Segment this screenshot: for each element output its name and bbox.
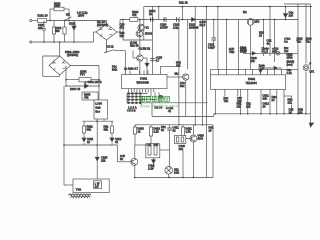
svg-text:Ja JaBx 4.7: Ja JaBx 4.7: [124, 67, 139, 71]
svg-text:10k: 10k: [120, 34, 125, 38]
svg-text:68k: 68k: [104, 128, 109, 132]
bridge right stub to main rail: [117, 20, 120, 33]
varistor D101: [63, 21, 66, 43]
resistor R102: [54, 7, 64, 11]
diode D312: [110, 138, 114, 142]
svg-text:10: 10: [209, 129, 212, 133]
svg-text:33: 33: [173, 129, 176, 133]
bridge rectifier D301-D304: [49, 56, 70, 75]
amp top wire: [135, 124, 213, 126]
speaker BL: [165, 167, 173, 178]
R82 wire: [284, 96, 292, 114]
long left vertical wire: [64, 86, 73, 185]
svg-text:3mb: 3mb: [95, 106, 101, 110]
IC301 pin wire to right: [161, 66, 179, 70]
diode D803: [283, 7, 287, 20]
svg-text:250V: 250V: [78, 14, 84, 18]
transistor V301: [133, 20, 143, 75]
right bus vertical: [310, 7, 312, 114]
capacitor C210 on rail: [177, 17, 180, 21]
wire above IC801: [211, 68, 299, 70]
transistor V410: [183, 125, 197, 178]
svg-text:▲ C301 M4T3: ▲ C301 M4T3: [84, 80, 102, 84]
svg-text:R41: R41: [154, 142, 159, 146]
svg-text:TEA1064: TEA1064: [246, 81, 258, 85]
IC301 bottom pins: [129, 89, 154, 93]
svg-text:22k: 22k: [101, 159, 106, 163]
bridge top stub: [106, 21, 108, 25]
svg-text:223: 223: [38, 26, 43, 30]
svg-text:IC801: IC801: [248, 77, 256, 81]
resistor R311: [83, 126, 86, 133]
svg-text:(1N4007): (1N4007): [67, 53, 78, 57]
resistor R103: [52, 21, 55, 43]
diode D102: [72, 21, 76, 43]
svg-text:18k: 18k: [237, 105, 242, 109]
svg-text:1xx: 1xx: [284, 49, 289, 53]
svg-text:3DG: 3DG: [198, 137, 204, 141]
svg-text:LF1: LF1: [310, 70, 315, 74]
resistor R408 box: [175, 136, 186, 144]
svg-text:(sec): (sec): [287, 63, 293, 67]
svg-text:1nF: 1nF: [260, 67, 265, 71]
terminal A (line L1): [30, 19, 38, 21]
middle verticals: [179, 7, 227, 125]
svg-text:2.2k: 2.2k: [148, 167, 154, 171]
keypad matrix: [127, 92, 208, 104]
svg-text:30: 30: [263, 105, 266, 109]
svg-text:HK: HK: [66, 13, 70, 17]
transformer coil: [69, 194, 91, 198]
transistor V102: [136, 30, 143, 37]
svg-text:220k: 220k: [54, 4, 60, 8]
svg-text:T-91: T-91: [76, 188, 82, 192]
amp bottom wire: [135, 177, 213, 179]
IC801 bottom pins: [215, 89, 284, 114]
svg-text:LC30: LC30: [95, 102, 102, 106]
capacitor C411: [167, 125, 172, 168]
svg-text:33k: 33k: [263, 97, 268, 101]
svg-text:YR5: YR5: [229, 50, 235, 54]
wire cap to transformer: [96, 160, 98, 181]
hook switch HJ: [104, 50, 126, 75]
svg-text:R21 1k: R21 1k: [179, 1, 188, 5]
wire above IC801: [243, 52, 298, 54]
right verticals: [298, 4, 311, 114]
svg-text:R101 10: R101 10: [38, 14, 49, 18]
switch HK: [64, 17, 72, 21]
svg-text:C41: C41: [147, 142, 152, 146]
svg-text:R304 43: R304 43: [70, 87, 81, 91]
svg-text:15k: 15k: [176, 64, 181, 68]
polarized cap C807: [276, 52, 280, 56]
svg-text:47k: 47k: [132, 13, 137, 17]
transistor V101: [138, 24, 145, 31]
svg-text:1N4148: 1N4148: [189, 26, 199, 30]
svg-text:2.2k: 2.2k: [154, 130, 160, 134]
tall rect verticals: [144, 7, 159, 75]
wire bottom line: [33, 41, 94, 43]
wire mid above IC801: [258, 67, 282, 69]
svg-text:FTY: FTY: [80, 73, 85, 77]
svg-text:21k: 21k: [288, 101, 293, 105]
transistor V304: [167, 74, 189, 117]
main rail: [120, 19, 298, 21]
top bus: [144, 6, 312, 8]
PTC 220R FTY: [79, 78, 91, 82]
svg-text:20: 20: [259, 34, 262, 38]
diode D315: [95, 157, 99, 161]
svg-text:MIC: MIC: [255, 20, 260, 24]
svg-text:68k: 68k: [87, 128, 92, 132]
svg-text:HJ 1k: HJ 1k: [107, 45, 115, 49]
resistor R101: [38, 19, 51, 23]
sub box R413 R414: [135, 144, 170, 158]
svg-text:Txx: Txx: [297, 40, 302, 44]
svg-text:41: 41: [168, 109, 171, 113]
svg-text:2.2µ: 2.2µ: [173, 26, 179, 30]
diode D311: [82, 138, 86, 142]
amp right vertical: [206, 125, 208, 178]
svg-text:50x: 50x: [180, 84, 185, 88]
left column parts C201 R301: [123, 20, 153, 41]
svg-text:P 1.5: P 1.5: [262, 50, 269, 54]
diode D801: [252, 52, 256, 55]
wire loop up: [50, 9, 69, 21]
svg-text:4 5 6 B: 4 5 6 B: [127, 109, 136, 113]
verticals right mid: [264, 7, 275, 63]
terminal B wire down to ring bridge: [59, 42, 61, 56]
resistor R210 above bus: [182, 7, 184, 20]
capacitor C105: [150, 59, 154, 61]
svg-text:5x-r: 5x-r: [95, 110, 100, 114]
ring bridge left stub: [43, 56, 60, 76]
diode D210 on rail: [192, 18, 196, 22]
svg-text:V1: V1: [146, 26, 150, 30]
earpiece LF: [303, 63, 311, 71]
ladder wires: [66, 66, 99, 101]
transistor Q401: [127, 145, 138, 178]
capacitor C110 on rail: [164, 17, 166, 21]
capacitor C211: [212, 20, 217, 45]
svg-text:Mx: Mx: [175, 72, 179, 76]
mic top wire: [250, 18, 252, 21]
svg-text:WD3448B: WD3448B: [137, 81, 149, 85]
diode D305: [85, 84, 89, 88]
capacitor C101: [42, 21, 46, 43]
bottom bus: [152, 114, 311, 117]
vertical x182 bottom: [182, 150, 184, 178]
amp left vertical: [134, 125, 136, 145]
terminal B (line L2): [30, 41, 33, 43]
resistor R411: [181, 125, 184, 139]
bridge rectifier D1-D4: [96, 24, 117, 40]
svg-text:D102: D102: [69, 22, 76, 26]
svg-text:10k: 10k: [250, 59, 255, 63]
IC301 dialer: [122, 75, 168, 89]
svg-text:4.7: 4.7: [156, 59, 160, 63]
resistor R416: [149, 125, 152, 144]
svg-text:472: 472: [120, 26, 125, 30]
svg-text:1.5k: 1.5k: [186, 130, 192, 134]
diode D411: [152, 158, 156, 169]
IC301 top pins: [125, 71, 160, 75]
wire top line to bridge: [50, 20, 107, 22]
svg-text:103: 103: [289, 14, 294, 18]
svg-text:47k: 47k: [84, 96, 89, 100]
svg-text:Mx: Mx: [243, 10, 247, 14]
svg-text:150k: 150k: [287, 56, 293, 60]
resistor R110 on rail: [130, 18, 138, 22]
svg-text:0.5µF: 0.5µF: [208, 46, 215, 50]
diode D803b: [274, 66, 278, 69]
microphone BM: [247, 19, 254, 70]
svg-text:68µF: 68µF: [240, 49, 247, 53]
svg-text:IC301: IC301: [140, 77, 148, 81]
diode mark on pin: [259, 70, 262, 73]
svg-text:24: 24: [272, 98, 275, 102]
right top wire: [284, 3, 311, 5]
ground: [309, 114, 313, 127]
keypad to bus wire: [142, 103, 153, 117]
capacitor C104 on rail: [151, 17, 153, 21]
svg-text:10k: 10k: [246, 105, 251, 109]
svg-text:www.elecfans.com: www.elecfans.com: [140, 104, 178, 109]
transformer T-91 box: [73, 179, 109, 193]
wires under ringer: [64, 119, 127, 162]
svg-text:2x7: 2x7: [95, 185, 100, 189]
IC801 speech: [211, 75, 286, 90]
IC801 top pins: [211, 20, 282, 75]
resistor box R305: [82, 92, 98, 100]
svg-text:M4x: M4x: [112, 68, 118, 72]
watermark line 1 (CJK drawn): [140, 96, 169, 101]
resistor R312: [111, 126, 114, 133]
svg-text:560: 560: [55, 29, 60, 33]
ringer box LC301: [94, 100, 108, 119]
svg-text:1.5x: 1.5x: [287, 71, 293, 75]
resistor R410: [133, 125, 136, 134]
bridge bottom stub to hook switch: [106, 40, 108, 52]
svg-text:16Ω: 16Ω: [174, 171, 179, 175]
svg-text:3DG6: 3DG6: [145, 32, 153, 36]
svg-text:1000P: 1000P: [160, 26, 168, 30]
diode D306: [143, 58, 149, 75]
svg-text:C1.5M 1k: C1.5M 1k: [139, 47, 151, 51]
svg-text:T8x: T8x: [224, 99, 229, 103]
wire jog to bridge bottom: [94, 32, 97, 42]
